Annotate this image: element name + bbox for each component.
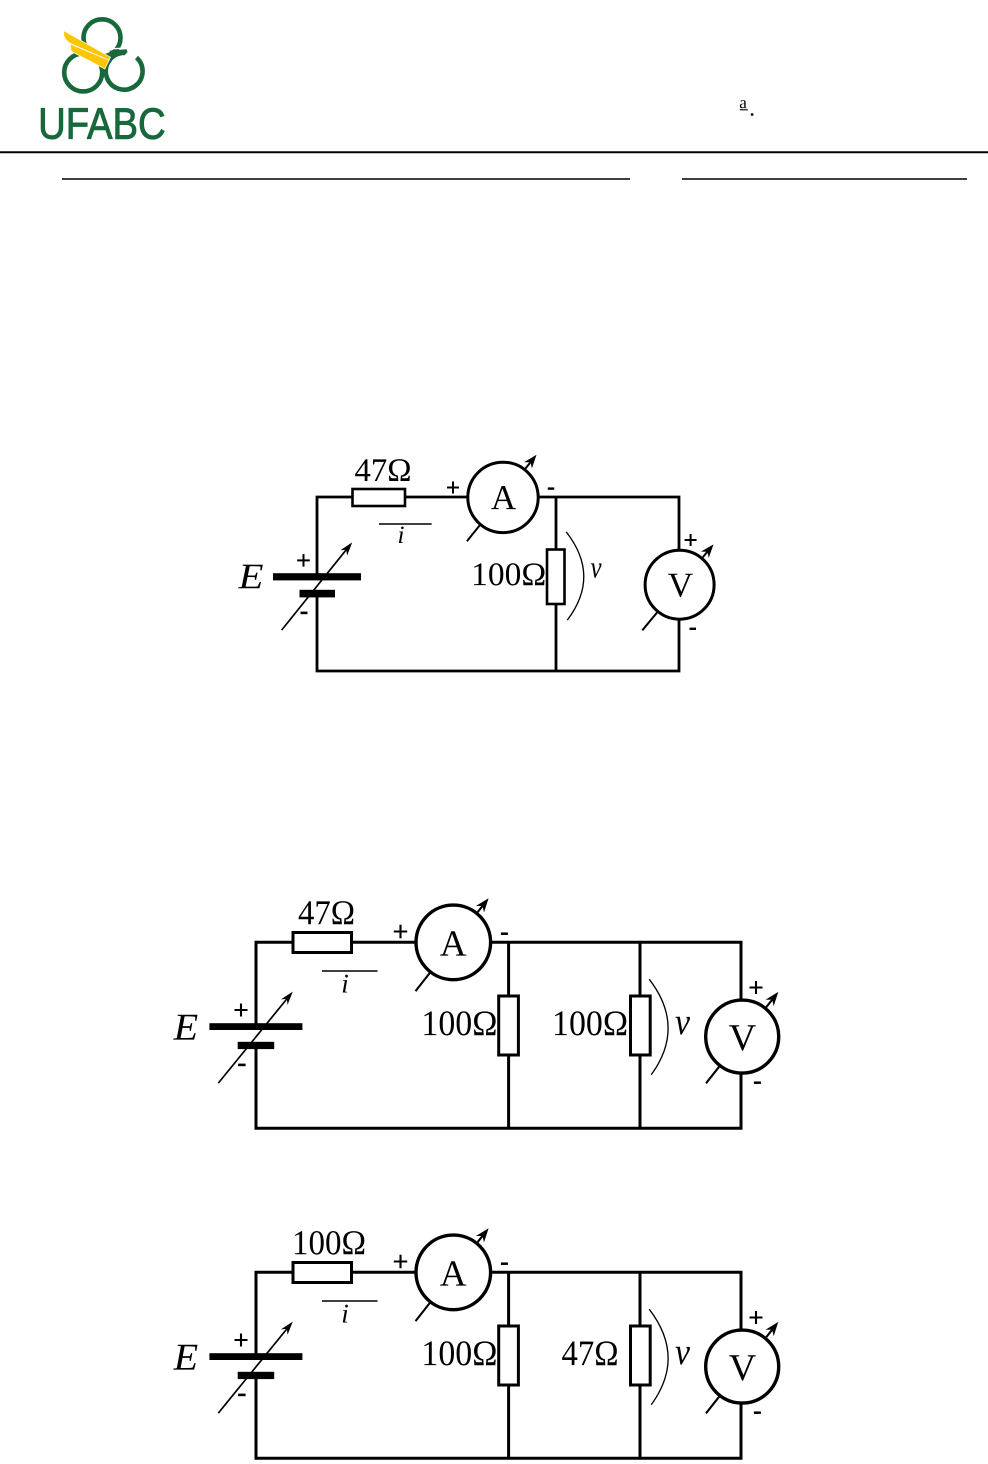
circuit 3 main loop wire bbox=[256, 1272, 741, 1458]
battery E source (circuit 3): long plate bbox=[209, 1353, 302, 1360]
branch resistor 100O (circuit 3) bbox=[499, 1326, 519, 1385]
ammeter plus (circuit 1) bbox=[447, 482, 459, 494]
UFABC logo: yellow pencil upper band bbox=[64, 31, 110, 60]
battery E source (circuit 3): short plate bbox=[238, 1372, 275, 1379]
ammeter A (circuit 2) bbox=[416, 905, 491, 980]
svg-text:A: A bbox=[440, 1254, 467, 1295]
ammeter needle (circuit 1) bbox=[467, 461, 532, 541]
voltmeter V (circuit 1) bbox=[645, 550, 714, 619]
voltage v brace (circuit 3) bbox=[649, 1309, 668, 1405]
voltmeter V (circuit 2) bbox=[706, 1000, 779, 1073]
full-width horizontal rule bbox=[0, 151, 988, 153]
voltmeter plus (circuit 3) bbox=[750, 1311, 763, 1324]
UFABC logo: top ring bbox=[84, 19, 121, 56]
branch resistor 100O (circuit 2) bbox=[499, 996, 519, 1055]
resistor 100ohm (circuit 1) bbox=[547, 550, 565, 605]
circuit 2 main loop wire bbox=[256, 942, 741, 1128]
svg-text:E: E bbox=[237, 556, 263, 596]
svg-text:UFABC: UFABC bbox=[38, 100, 166, 149]
battery E source (circuit 1): short plate bbox=[300, 590, 336, 598]
battery variable arrow (circuit 3) bbox=[218, 1328, 287, 1413]
current i overline (circuit 2) bbox=[322, 970, 378, 972]
svg-text:V: V bbox=[729, 1347, 757, 1389]
battery variable arrow (circuit 2) bbox=[218, 998, 287, 1083]
series resistor 100O (circuit 3) bbox=[293, 1263, 352, 1283]
battery E source (circuit 2): short plate bbox=[238, 1042, 275, 1049]
svg-text:v: v bbox=[675, 1331, 690, 1373]
battery plus (circuit 2) bbox=[235, 1004, 248, 1017]
voltmeter V (circuit 3) bbox=[706, 1330, 779, 1403]
svg-text:V: V bbox=[729, 1017, 757, 1059]
voltmeter minus (circuit 3) bbox=[754, 1411, 761, 1414]
branch resistor 100O (circuit 2) bbox=[631, 996, 651, 1055]
svg-text:100Ω: 100Ω bbox=[552, 1003, 628, 1043]
UFABC logo: bottom-left ring bbox=[64, 53, 102, 91]
circuit 2 parallel branch 1 wire bbox=[507, 942, 510, 1128]
ammeter minus (circuit 2) bbox=[501, 932, 508, 935]
voltmeter minus (circuit 1) bbox=[690, 628, 697, 630]
current i overline (circuit 3) bbox=[322, 1300, 378, 1302]
ammeter plus (circuit 2) bbox=[394, 925, 407, 938]
series resistor 47O (circuit 2) bbox=[293, 933, 352, 953]
svg-text:E: E bbox=[173, 1007, 199, 1049]
battery E source (circuit 1): long plate bbox=[273, 573, 361, 580]
svg-text:100Ω: 100Ω bbox=[421, 1333, 497, 1373]
ammeter needle (circuit 2) bbox=[416, 905, 484, 991]
svg-text:i: i bbox=[398, 522, 405, 549]
right underline bbox=[682, 178, 967, 180]
voltmeter needle (circuit 2) bbox=[706, 999, 773, 1084]
svg-text:i: i bbox=[341, 968, 349, 998]
left underline bbox=[62, 178, 630, 180]
circuit 1 main loop wire bbox=[317, 497, 679, 671]
UFABC logo: bottom-right open ring bbox=[106, 53, 143, 90]
circuit 1 middle branch wire bbox=[555, 497, 558, 671]
UFABC logo: yellow pencil lower band bbox=[71, 45, 109, 69]
resistor 47ohm (circuit 1) bbox=[353, 489, 406, 506]
ammeter minus (circuit 1) bbox=[548, 487, 554, 489]
voltmeter needle (circuit 3) bbox=[706, 1329, 773, 1414]
battery variable arrow (circuit 1) bbox=[282, 549, 348, 630]
svg-text:E: E bbox=[173, 1337, 199, 1379]
svg-text:47Ω: 47Ω bbox=[298, 893, 355, 932]
current i overline (circuit 1) bbox=[379, 523, 432, 525]
battery plus (circuit 3) bbox=[235, 1334, 248, 1347]
voltage v brace (circuit 2) bbox=[649, 979, 668, 1075]
circuit 3 parallel branch 2 wire bbox=[639, 1272, 642, 1458]
circuit 3 parallel branch 1 wire bbox=[507, 1272, 510, 1458]
svg-text:47Ω: 47Ω bbox=[354, 453, 411, 489]
battery plus (circuit 1) bbox=[297, 554, 310, 567]
voltmeter plus (circuit 1) bbox=[685, 534, 697, 546]
voltmeter minus (circuit 2) bbox=[754, 1081, 761, 1084]
voltmeter plus (circuit 2) bbox=[750, 981, 763, 994]
ammeter needle (circuit 3) bbox=[416, 1235, 484, 1321]
ammeter minus (circuit 3) bbox=[501, 1262, 508, 1265]
UFABC logo: ring top stub bar bbox=[109, 47, 127, 50]
ammeter A (circuit 1) bbox=[468, 462, 538, 532]
svg-text:v: v bbox=[590, 550, 601, 585]
svg-text:100Ω: 100Ω bbox=[421, 1003, 497, 1043]
svg-text:v: v bbox=[675, 1001, 690, 1043]
battery E source (circuit 2): long plate bbox=[209, 1023, 302, 1030]
period after a bbox=[751, 113, 754, 116]
svg-text:47Ω: 47Ω bbox=[561, 1333, 618, 1373]
svg-text:i: i bbox=[341, 1298, 349, 1328]
svg-text:A: A bbox=[491, 478, 517, 517]
UFABC logo: yellow pencil white halo bbox=[64, 31, 110, 68]
battery minus (circuit 2) bbox=[238, 1064, 246, 1067]
voltage v brace (circuit 1) bbox=[566, 532, 584, 620]
branch resistor 47O (circuit 3) bbox=[631, 1326, 651, 1385]
battery minus (circuit 1) bbox=[301, 612, 308, 615]
svg-text:100Ω: 100Ω bbox=[292, 1223, 366, 1262]
ammeter A (circuit 3) bbox=[416, 1235, 491, 1310]
svg-text:A: A bbox=[440, 924, 467, 965]
voltmeter needle (circuit 1) bbox=[642, 551, 708, 631]
circuit 2 parallel branch 2 wire bbox=[639, 942, 642, 1128]
svg-text:V: V bbox=[668, 566, 693, 605]
ammeter plus (circuit 3) bbox=[394, 1255, 407, 1268]
battery minus (circuit 3) bbox=[238, 1394, 246, 1397]
svg-text:100Ω: 100Ω bbox=[471, 557, 546, 593]
